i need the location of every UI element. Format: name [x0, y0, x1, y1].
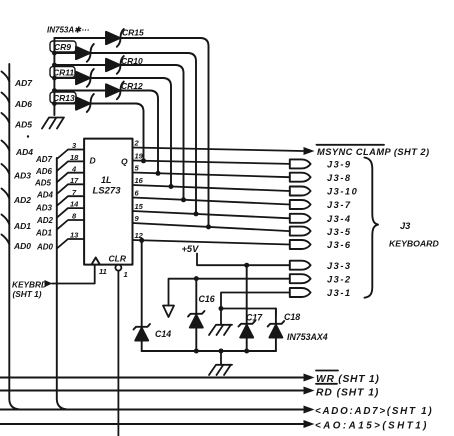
svg-text:1: 1: [124, 270, 128, 279]
svg-text:AD1: AD1: [35, 229, 53, 238]
svg-text:J3-6: J3-6: [327, 240, 352, 250]
wire bus rip AD7 (outer): [2, 72, 10, 82]
wire CLR pin 1 down off page: [117, 271, 119, 436]
wire output Q6 to J3-7: [133, 198, 290, 205]
wire A0:A15 bus line: [0, 423, 303, 425]
wire bus rip AD2 (outer): [2, 189, 10, 199]
connector finger J3-5: [290, 227, 311, 236]
svg-text:9: 9: [135, 214, 140, 223]
svg-text:KEYBRD: KEYBRD: [12, 280, 47, 290]
connector finger J3-8: [290, 173, 311, 182]
svg-text:18: 18: [70, 153, 79, 162]
svg-text:AD4: AD4: [15, 147, 33, 157]
svg-text:AD7: AD7: [14, 78, 33, 88]
label CR9 (boxed): [50, 41, 76, 52]
connector finger J3-7: [290, 200, 311, 209]
arrow A0:A15: [304, 420, 315, 428]
wire bus rip AD4 (outer): [2, 141, 10, 151]
wire D input pin 17 with bus rip: [57, 184, 84, 194]
svg-text:J3: J3: [400, 221, 411, 231]
junction CR9 / output Q15: [194, 211, 199, 216]
wire KEYBRD (SHT 1) to clock pin 11: [52, 265, 95, 284]
wire D input pin 8 with bus rip: [57, 220, 84, 230]
svg-text:15: 15: [135, 202, 144, 211]
junction anode bus / CR13: [52, 101, 57, 106]
connector finger J3-2: [290, 274, 311, 283]
svg-text:19: 19: [135, 152, 144, 161]
junction CR13 / output Q19: [141, 158, 146, 163]
net label RD (SHT 1) with overline: [316, 383, 337, 385]
svg-text:AD6: AD6: [14, 99, 32, 109]
svg-text:<AO:A15>(SHT1): <AO:A15>(SHT1): [315, 420, 429, 431]
svg-text:17: 17: [70, 176, 79, 185]
wire inner AD bus vertical: [57, 158, 67, 409]
svg-text:RD (SHT 1): RD (SHT 1): [316, 387, 379, 398]
arrow MSYNC CLAMP: [304, 147, 315, 155]
svg-text:AD5: AD5: [34, 178, 52, 187]
wire J3-1 row to ground and C18: [221, 293, 290, 325]
wire bus rip AD0 (outer): [2, 235, 10, 245]
svg-text:Q: Q: [121, 157, 128, 167]
svg-text:J3-1: J3-1: [327, 288, 352, 298]
wire D input pin 14 with bus rip: [57, 208, 84, 218]
svg-text:AD3: AD3: [13, 171, 31, 181]
svg-text:J3-4: J3-4: [327, 214, 352, 224]
svg-text:CR9: CR9: [54, 42, 71, 52]
svg-text:CLR: CLR: [109, 254, 127, 264]
open arrow (off-sheet, down): [163, 306, 174, 318]
junction CR11 / output Q16: [169, 184, 174, 189]
svg-text:J3-9: J3-9: [327, 160, 352, 170]
svg-text:IN753AX4: IN753AX4: [287, 332, 328, 342]
diode CR10 (zener) with wire to Q6 junction: [54, 56, 183, 200]
net label WR (SHT 1) with overline: [316, 370, 338, 372]
junction J3-2 row / C16: [194, 276, 199, 281]
label CR13 (boxed): [50, 92, 76, 103]
diode CR15 (zener) with wire to Q9 junction: [54, 29, 208, 227]
wire diode anode bus vertical: [53, 38, 55, 115]
net label MSYNC CLAMP (SHT 2) with overline: [317, 144, 385, 146]
inverter bubble CLR pin 1: [115, 265, 121, 271]
clock edge wedge (pin 11): [92, 258, 100, 265]
wire D input pin 4 with bus rip: [57, 173, 84, 183]
junction J3-1 drop / C18 link: [219, 306, 224, 311]
connector finger J3-3: [290, 261, 311, 270]
wire bus rip AD3 (outer): [2, 164, 10, 174]
svg-text:KEYBOARD: KEYBOARD: [389, 239, 439, 249]
zener C16: [188, 279, 205, 351]
junction anode bus / CR11: [52, 76, 57, 81]
svg-text:IN753A✱⋯: IN753A✱⋯: [47, 26, 90, 35]
wire D input pin 3 with bus rip: [57, 150, 84, 160]
wire AD0:AD7 bus line: [0, 409, 303, 411]
wire D input pin 13 with bus rip: [57, 239, 84, 249]
svg-text:J3-8: J3-8: [327, 173, 352, 183]
svg-text:C14: C14: [155, 329, 171, 339]
svg-text:2: 2: [134, 139, 140, 148]
svg-text:(SHT 1): (SHT 1): [13, 289, 42, 299]
junction Q12 wire / C14: [139, 238, 144, 243]
svg-text:AD2: AD2: [13, 195, 31, 205]
svg-text:6: 6: [135, 189, 140, 198]
junction rail / ground stub: [219, 349, 224, 354]
svg-text:14: 14: [70, 200, 79, 209]
wire output Q9 to J3-5: [133, 223, 290, 231]
junction rail / C16: [194, 349, 199, 354]
wire output Q5 to J3-8: [133, 173, 290, 178]
connector finger J3-6: [290, 240, 311, 249]
connector finger J3-10: [290, 187, 311, 196]
ground (top left, diode return): [42, 118, 64, 129]
wire bus rip AD1 (outer): [2, 215, 10, 225]
svg-text:1L: 1L: [101, 175, 112, 185]
svg-text:AD7: AD7: [35, 155, 53, 164]
op IC U1 LS273 body: [84, 139, 132, 265]
svg-text:13: 13: [70, 231, 79, 240]
svg-text:AD1: AD1: [13, 221, 31, 231]
junction CR10 / output Q6: [181, 197, 186, 202]
svg-text:CR10: CR10: [121, 56, 143, 66]
connector finger J3-9: [290, 159, 311, 168]
svg-text:J3-2: J3-2: [327, 274, 352, 284]
svg-text:16: 16: [135, 176, 144, 185]
svg-text:J3-5: J3-5: [327, 227, 352, 237]
zener C14: [134, 240, 151, 351]
wire +5V to J3-3 row: [197, 254, 290, 266]
svg-text:<ADO:AD7>(SHT 1): <ADO:AD7>(SHT 1): [315, 406, 433, 417]
svg-text:J3-10: J3-10: [327, 187, 358, 197]
junction anode bus / CR9: [52, 51, 57, 56]
wire output Q2 to MSYNC CLAMP arrow: [133, 148, 304, 152]
wire ground rail under zeners: [142, 350, 276, 352]
svg-text:CR11: CR11: [53, 68, 74, 78]
ground (rail, bottom): [209, 351, 232, 375]
diode CR13 (zener) with wire to Q19 junction: [54, 94, 143, 161]
svg-text:MSYNC CLAMP (SHT 2): MSYNC CLAMP (SHT 2): [317, 147, 430, 157]
wire output Q12 to J3-6: [133, 240, 290, 245]
svg-text:AD5: AD5: [14, 120, 32, 130]
svg-text:C16: C16: [199, 294, 215, 304]
wire bus rip AD5 (outer): [2, 113, 10, 123]
svg-text:4: 4: [71, 164, 77, 173]
svg-text:5: 5: [135, 164, 140, 173]
zener C17: [239, 265, 256, 351]
svg-text:AD2: AD2: [36, 216, 54, 225]
svg-text:AD4: AD4: [36, 191, 54, 200]
svg-text:CR15: CR15: [122, 28, 144, 38]
stray pencil dot: [27, 135, 29, 137]
svg-text:CR13: CR13: [53, 93, 75, 103]
wire D input pin 7 with bus rip: [57, 196, 84, 206]
arrow KEYBRD signal: [45, 280, 53, 287]
svg-text:C17: C17: [246, 313, 263, 323]
svg-text:D: D: [90, 156, 96, 166]
label CR11 (boxed): [50, 67, 75, 78]
zener C18: [268, 309, 285, 352]
arrow RD: [304, 387, 315, 395]
wire RD line: [0, 390, 303, 392]
connector finger J3-4: [290, 214, 311, 223]
junction anode bus / CR10: [52, 63, 57, 68]
wire output Q16 to J3-10: [133, 185, 290, 191]
svg-text:LS273: LS273: [93, 186, 122, 197]
svg-text:AD3: AD3: [35, 203, 53, 212]
ground (J3-1, mid): [209, 325, 232, 335]
svg-text:+5V: +5V: [182, 244, 200, 254]
arrow AD0:AD7: [304, 406, 315, 414]
brace J3 connector group: [365, 158, 379, 298]
svg-text:AD0: AD0: [36, 242, 54, 251]
wire output Q15 to J3-4: [133, 211, 290, 218]
svg-text:AD0: AD0: [13, 241, 31, 251]
svg-text:CR12: CR12: [121, 81, 143, 91]
arrow WR: [304, 374, 315, 382]
wire J3-2 row to left corner: [169, 279, 290, 306]
wire WR line: [0, 377, 303, 379]
junction CR12 / output Q5: [156, 171, 161, 176]
svg-text:AD6: AD6: [35, 167, 53, 176]
junction +5V row / C17: [244, 263, 249, 268]
wire D input pin 18 with bus rip: [57, 161, 84, 171]
diode CR9 (zener) with wire to Q15 junction: [54, 44, 196, 214]
wire bus rip AD6 (outer): [2, 93, 10, 103]
wire output Q19 to J3-9: [133, 161, 290, 164]
svg-text:J3-3: J3-3: [327, 261, 352, 271]
diode CR12 (zener) with wire to Q5 junction: [54, 82, 158, 174]
junction CR15 / output Q9: [206, 224, 211, 229]
junction anode bus / CR12: [52, 88, 57, 93]
junction rail / C17: [244, 349, 249, 354]
svg-text:C18: C18: [284, 312, 300, 322]
connector finger J3-1: [290, 288, 311, 297]
svg-text:11: 11: [99, 267, 107, 276]
diode CR11 (zener) with wire to Q16 junction: [54, 69, 171, 187]
wire address bus vertical (left outer bus AD0:AD7): [9, 64, 19, 409]
svg-text:J3-7: J3-7: [327, 200, 352, 210]
